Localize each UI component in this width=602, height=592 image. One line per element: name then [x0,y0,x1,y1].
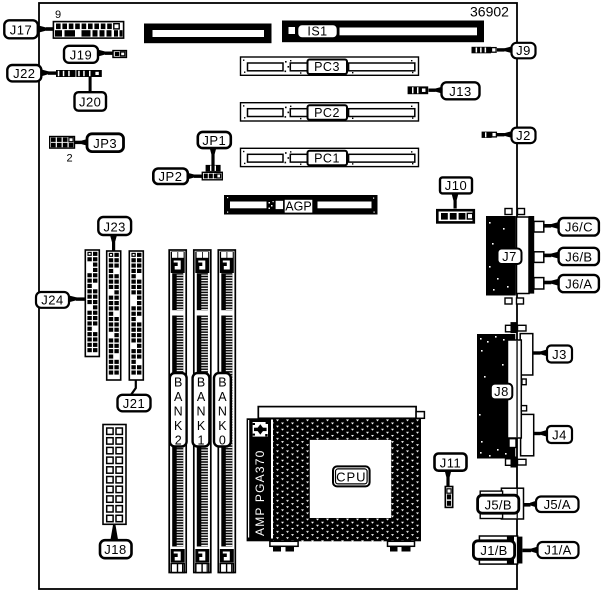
header J11 [445,487,452,508]
svg-text:N: N [218,405,227,419]
label PC1 [308,151,348,166]
svg-text:K: K [174,419,183,433]
header J2 [482,132,497,138]
CPU socket pin grid body [273,418,421,541]
svg-text:J8: J8 [494,384,509,399]
svg-text:J24: J24 [41,293,63,308]
svg-text:36902: 36902 [470,4,509,20]
PCI slot PC3 [241,57,419,75]
svg-text:J18: J18 [104,542,126,557]
label J5/B [478,495,519,513]
J1/B power connector [479,536,522,564]
svg-text:J19: J19 [70,47,92,62]
svg-text:JP2: JP2 [159,169,183,184]
svg-text:K: K [218,419,227,433]
label AGP [284,199,313,214]
svg-text:B: B [197,376,205,390]
svg-text:N: N [174,405,183,419]
header J9 [472,47,497,54]
svg-text:A: A [197,390,206,404]
svg-text:PC3: PC3 [314,60,340,74]
svg-text:A: A [174,390,183,404]
svg-text:A: A [218,390,227,404]
DIMM socket BANK1 [194,250,211,573]
svg-text:J4: J4 [552,427,567,442]
label BANK1 [193,373,210,448]
stipple PC1 [243,151,413,165]
label J20 [75,92,107,111]
label BANK2 [170,373,187,448]
label BANK0 [214,373,231,448]
label J24 [36,292,86,308]
svg-text:J7: J7 [502,249,517,264]
svg-text:J9: J9 [516,43,531,58]
svg-text:2: 2 [175,434,182,448]
svg-text:N: N [196,405,205,419]
label J9 [497,43,536,59]
svg-text:JP1: JP1 [202,133,226,148]
label JP2 [153,169,203,185]
label J8 [491,384,513,400]
svg-text:J20: J20 [79,95,101,110]
CPU socket AMP PGA370 side strip [247,418,274,541]
svg-text:9: 9 [55,9,61,21]
header J13 [408,86,429,94]
svg-text:PC1: PC1 [314,152,340,166]
board outline [39,3,517,589]
label CPU [333,466,370,486]
svg-text:2: 2 [67,153,73,165]
label J21 [118,381,151,412]
label J11 [435,454,467,487]
DIMM socket BANK2 [169,250,186,573]
PCI slot PC2 [241,103,419,121]
label JP1 [198,132,231,165]
header J23 (2-column pin header) [107,251,121,380]
svg-text:J6/B: J6/B [565,249,592,264]
header J17 [53,22,123,38]
J5/B USB connector [480,488,523,519]
svg-text:B: B [218,376,226,390]
J7 connector stack (rear I/O) [486,209,544,305]
svg-text:J21: J21 [123,396,145,411]
wire from J22 header to J20 label [89,77,92,92]
svg-text:J13: J13 [449,84,471,99]
label IS1 [298,25,338,39]
svg-text:J6/A: J6/A [565,276,592,291]
label J18 [100,525,132,558]
label J1/A [523,542,579,558]
svg-text:CPU: CPU [336,469,366,484]
svg-text:1: 1 [198,434,205,448]
header J10 [437,210,474,222]
header JP1 [206,165,221,172]
svg-text:AGP: AGP [285,200,311,214]
svg-text:JP3: JP3 [93,136,117,151]
svg-text:J3: J3 [552,347,567,362]
header J21 (2-column pin header) [129,251,143,380]
svg-text:B: B [174,376,182,390]
label J10 [440,177,472,208]
stipple PC2 [243,105,413,119]
header J22 [56,70,102,77]
svg-text:J1/A: J1/A [544,543,571,558]
J8 connector stack mounting tabs top [506,322,527,333]
svg-text:J10: J10 [445,178,467,193]
label J17 [4,20,53,38]
svg-text:IS1: IS1 [307,25,327,39]
label J6/C [544,218,599,236]
label J6/B [544,248,599,265]
stipple PC3 [243,60,413,74]
label J2 [497,128,536,144]
label PC3 [308,60,348,75]
label J13 [429,82,480,99]
label J4 [534,426,573,443]
svg-text:J23: J23 [103,219,125,234]
J8 connector stack mounting tabs bottom [506,457,527,468]
svg-text:J5/A: J5/A [544,497,571,512]
label J1/B [473,541,514,560]
ISA slot IS1 [282,21,484,43]
svg-text:J11: J11 [440,455,462,470]
svg-text:K: K [197,419,206,433]
connector J19 [113,51,126,58]
label J19 [64,46,113,63]
svg-text:J1/B: J1/B [480,543,507,558]
svg-text:J2: J2 [516,128,531,143]
DIMM socket BANK0 [218,250,235,573]
svg-text:0: 0 [219,434,226,448]
J8 connector stack (rear I/O) [477,334,534,459]
header JP3 [50,137,75,149]
svg-text:AMP PGA370: AMP PGA370 [253,450,267,536]
label J23 [98,217,131,251]
label J3 [534,346,573,363]
svg-text:PC2: PC2 [314,106,340,120]
label J5/A [524,497,579,513]
CPU socket feet [270,541,415,551]
header J18 (2x10 box header) [103,425,126,525]
PCI slot PC1 [241,148,419,166]
svg-text:J22: J22 [13,66,35,81]
label JP3 [75,134,124,152]
svg-text:J6/C: J6/C [565,220,593,235]
label J22 [7,65,56,81]
label PC2 [308,105,348,120]
header JP2 [202,172,222,180]
svg-text:J5/B: J5/B [485,497,512,512]
ISA slot (left, unlabeled) [144,24,272,44]
header J24 (2-column pin header) [85,250,99,357]
svg-text:J17: J17 [10,23,32,38]
CPU socket lever bar [258,407,424,419]
label J6/A [544,275,599,292]
AGP slot [224,195,378,215]
label J7 [498,249,522,265]
